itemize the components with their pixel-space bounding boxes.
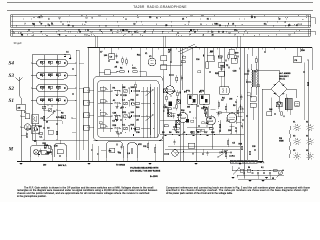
svg-text:47K: 47K (138, 143, 142, 146)
svg-text:C7: C7 (100, 52, 102, 54)
svg-text:M: M (8, 147, 14, 153)
svg-text:C3: C3 (149, 17, 151, 19)
svg-text:V3: V3 (293, 136, 295, 138)
svg-text:12: 12 (110, 30, 112, 32)
svg-text:1M: 1M (209, 118, 212, 120)
svg-text:M: M (35, 150, 37, 154)
svg-text:12: 12 (219, 25, 221, 27)
svg-text:25: 25 (194, 32, 196, 34)
svg-text:25: 25 (182, 19, 184, 21)
svg-text:L1: L1 (24, 112, 26, 114)
svg-text:12: 12 (278, 19, 280, 21)
svg-text:R2: R2 (32, 24, 34, 26)
svg-text:465: 465 (187, 106, 190, 109)
svg-text:5: 5 (228, 24, 229, 26)
svg-text:2M: 2M (123, 87, 126, 89)
svg-text:R9: R9 (233, 105, 235, 107)
svg-text:L9: L9 (56, 74, 58, 76)
svg-text:R3: R3 (56, 62, 58, 64)
svg-text:FIG. 1: FIG. 1 (259, 162, 266, 164)
svg-text:C35: C35 (252, 146, 255, 148)
svg-text:7: 7 (132, 34, 133, 36)
svg-text:S1: S1 (264, 24, 266, 26)
svg-text:C3: C3 (41, 118, 43, 120)
svg-text:R16: R16 (181, 110, 184, 112)
svg-text:T2: T2 (226, 65, 228, 67)
svg-text:50: 50 (248, 167, 250, 169)
svg-text:C12: C12 (40, 87, 43, 89)
svg-text:R.F.GAIN: R.F.GAIN (56, 116, 65, 119)
svg-text:30 μμF: 30 μμF (14, 41, 23, 45)
svg-text:R2: R2 (116, 62, 118, 64)
svg-text:R28: R28 (239, 144, 242, 146)
svg-text:R2: R2 (21, 34, 23, 36)
svg-text:C25: C25 (211, 132, 214, 134)
svg-text:VOLTAGES MEASURED WITH: VOLTAGES MEASURED WITH (130, 167, 159, 170)
svg-text:C3: C3 (234, 30, 236, 32)
svg-text:25: 25 (46, 122, 48, 124)
svg-text:8: 8 (284, 116, 285, 118)
svg-text:25: 25 (288, 25, 290, 27)
svg-text:L9: L9 (183, 132, 185, 134)
svg-text:10K: 10K (131, 87, 135, 89)
svg-text:R8: R8 (48, 99, 50, 101)
svg-text:S1: S1 (122, 30, 124, 32)
svg-text:10K: 10K (228, 130, 232, 132)
svg-text:S4: S4 (9, 61, 15, 67)
svg-text:0.1: 0.1 (261, 167, 264, 169)
svg-text:S1: S1 (38, 17, 40, 19)
svg-text:B+ 250V: B+ 250V (150, 176, 159, 178)
svg-text:25: 25 (197, 132, 199, 134)
svg-text:C5: C5 (48, 62, 50, 64)
svg-text:V2: V2 (306, 122, 308, 124)
svg-text:C19: C19 (210, 51, 213, 53)
svg-text:25: 25 (232, 24, 234, 26)
svg-text:C40: C40 (172, 90, 175, 93)
svg-text:AVO MODEL 7 ON 400V RANGE: AVO MODEL 7 ON 400V RANGE (130, 169, 161, 172)
svg-text:W: W (79, 32, 81, 34)
svg-text:C16: C16 (196, 59, 199, 61)
svg-text:VIEW: VIEW (279, 141, 284, 143)
svg-text:W: W (41, 24, 43, 26)
svg-text:C44: C44 (269, 108, 272, 111)
svg-text:240V A.C.: 240V A.C. (58, 164, 67, 167)
svg-text:C25: C25 (40, 99, 43, 101)
svg-text:of the power pack section of t: of the power pack section of the circuit… (166, 192, 233, 195)
svg-text:V1: V1 (293, 122, 295, 124)
svg-text:12: 12 (190, 30, 192, 32)
svg-text:7: 7 (24, 24, 25, 26)
svg-text:R6: R6 (169, 132, 171, 134)
svg-text:W: W (296, 25, 298, 27)
svg-text:R6: R6 (40, 74, 42, 76)
svg-text:R3: R3 (61, 113, 63, 115)
svg-text:25: 25 (251, 17, 253, 19)
svg-text:25: 25 (48, 87, 50, 89)
svg-text:V5: V5 (293, 150, 295, 152)
svg-text:25: 25 (212, 34, 214, 36)
svg-text:R1: R1 (120, 68, 122, 70)
svg-text:C17: C17 (204, 132, 207, 134)
svg-text:S1: S1 (51, 24, 53, 26)
svg-text:V1: V1 (145, 53, 147, 55)
svg-text:100: 100 (43, 164, 46, 166)
svg-text:25: 25 (68, 25, 70, 27)
svg-text:S1: S1 (207, 19, 209, 21)
svg-text:12: 12 (222, 32, 224, 34)
svg-text:C8: C8 (40, 62, 42, 64)
svg-text:7: 7 (208, 32, 209, 34)
svg-text:C12: C12 (190, 132, 193, 134)
svg-text:7: 7 (41, 17, 42, 19)
svg-text:R22: R22 (215, 73, 218, 75)
svg-text:50 c/s: 50 c/s (280, 79, 286, 81)
svg-text:TA25R RADIO-GRAMOPHONE: TA25R RADIO-GRAMOPHONE (133, 5, 187, 9)
svg-text:V4: V4 (306, 135, 308, 138)
svg-text:12: 12 (133, 24, 135, 26)
svg-text:V6: V6 (306, 150, 308, 152)
svg-text:S3: S3 (9, 73, 15, 79)
svg-text:to the gramophone position.: to the gramophone position. (17, 195, 47, 198)
svg-text:C31: C31 (143, 146, 146, 148)
svg-text:A.C. MAINS: A.C. MAINS (280, 72, 292, 75)
svg-text:S2: S2 (9, 86, 15, 92)
svg-text:200-250 V: 200-250 V (280, 76, 290, 78)
svg-text:25: 25 (144, 32, 146, 34)
svg-text:S1: S1 (216, 24, 218, 26)
svg-text:2M: 2M (229, 99, 232, 101)
svg-text:S1: S1 (134, 32, 136, 34)
svg-text:S1: S1 (9, 98, 15, 104)
svg-text:C3: C3 (211, 32, 213, 34)
svg-text:25: 25 (165, 25, 167, 27)
svg-text:TO GRAM: TO GRAM (116, 164, 125, 167)
svg-text:R3: R3 (162, 132, 164, 134)
svg-text:7: 7 (234, 34, 235, 36)
svg-text:R12: R12 (168, 50, 171, 52)
